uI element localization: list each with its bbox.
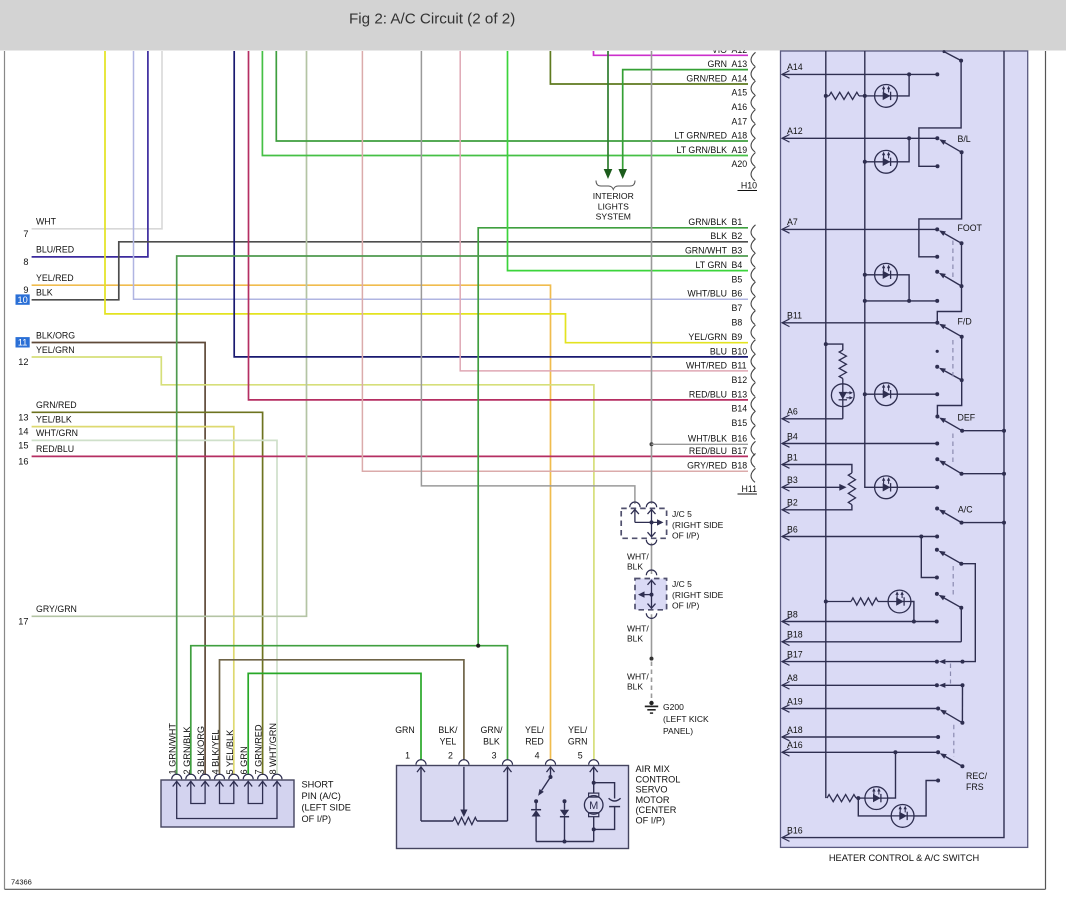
wire BLK pin10 to B2 (32, 242, 748, 300)
svg-text:HEATER CONTROL & A/C SWITCH: HEATER CONTROL & A/C SWITCH (829, 853, 979, 863)
lamp L-A6 (831, 384, 854, 407)
connector pin B10 label BLU (710, 346, 756, 368)
svg-text:B16: B16 (732, 434, 748, 444)
svg-text:YEL/GRN: YEL/GRN (36, 345, 75, 355)
svg-text:(LEFT KICK: (LEFT KICK (663, 714, 709, 724)
svg-text:BLK/ORG: BLK/ORG (36, 330, 75, 340)
wire WHT/BLK feeder to junction connector JC5 (421, 51, 635, 504)
svg-text:B4: B4 (732, 260, 743, 270)
pin 15 label WHT/GRN (18, 428, 78, 450)
wire GRN/WHT B3 to short pin1 (177, 256, 748, 775)
svg-text:OF I/P): OF I/P) (302, 814, 332, 824)
svg-text:10: 10 (17, 295, 27, 305)
switch chain segment 3 (937, 243, 961, 322)
wire RED/BLU to B13 (249, 51, 749, 400)
svg-text:LT GRN/BLK: LT GRN/BLK (676, 145, 727, 155)
svg-text:8 WHT/GRN: 8 WHT/GRN (268, 723, 278, 775)
wire GRN/RED pin13 to short pin7 (32, 412, 263, 775)
wire WHT/GRN pin15 to short pin8 (32, 440, 277, 775)
svg-text:(RIGHT SIDE: (RIGHT SIDE (672, 520, 724, 530)
svg-text:GRY/RED: GRY/RED (687, 461, 727, 471)
switch A/C blade 2 (944, 513, 961, 523)
svg-text:B3: B3 (732, 245, 743, 255)
wire GRN/RED to A14 (550, 51, 748, 84)
switch chain segment 1 (919, 61, 961, 167)
switch box pin B17 (782, 649, 803, 665)
resistor R5 (827, 795, 856, 802)
svg-text:A18: A18 (732, 130, 748, 140)
switch F/D blade 1 (945, 327, 962, 337)
connector pin B11 label WHT/RED (686, 360, 756, 382)
lamp L6 (888, 590, 911, 613)
short pin connector socket 5 (229, 774, 239, 779)
wire BLK/ORG pin11 to short pin3 (32, 343, 206, 776)
connector pin B18 label GRY/RED (687, 461, 755, 483)
svg-text:A14: A14 (787, 62, 803, 72)
pin line A19 (782, 708, 938, 710)
switch REC blade 1 (944, 554, 961, 564)
connector pin A20 (732, 159, 756, 181)
lamp L1 (875, 85, 898, 108)
pin line A8 (782, 684, 937, 686)
svg-text:J/C 5: J/C 5 (672, 509, 692, 519)
drawing frame border (4, 51, 6, 889)
svg-text:PIN (A/C): PIN (A/C) (302, 791, 341, 801)
interior lights system brace (596, 181, 635, 190)
switch box pin B1 (782, 452, 798, 468)
svg-text:A13: A13 (732, 59, 748, 69)
wire BLU/RED pin8 (32, 51, 148, 257)
svg-text:WHT: WHT (36, 217, 57, 227)
svg-text:SYSTEM: SYSTEM (596, 212, 631, 222)
short pin internal jumpers (173, 781, 281, 818)
lamp L5 (875, 476, 898, 499)
switch box pin A16 (782, 740, 803, 756)
svg-text:MOTOR: MOTOR (636, 795, 670, 805)
wire L8 to REC contact (914, 781, 938, 816)
short pin connector socket 2 (186, 774, 196, 779)
air mix capacitor (594, 783, 621, 830)
wire RED/BLU pin16 to B17 (32, 455, 748, 457)
air mix diode D1 (531, 801, 541, 841)
svg-text:H10: H10 (741, 181, 757, 191)
switch FOOT gang dashes (952, 241, 954, 278)
svg-text:DEF: DEF (958, 413, 976, 423)
pin 10 label BLK (16, 288, 53, 305)
junction connector J/C 5 upper (dashed) (621, 502, 666, 545)
connector pin B16 label WHT/BLK (688, 434, 756, 456)
svg-text:BLK: BLK (36, 288, 53, 298)
wire B6 jog to lower contact (921, 537, 937, 578)
wire GRN/BLK branch to air mix pin3 (478, 646, 507, 761)
connector pin A14 label GRN/RED (686, 73, 755, 95)
svg-text:5 YEL/BLK: 5 YEL/BLK (225, 729, 235, 775)
pin line A6 with resistor and lamp (782, 407, 843, 419)
air mix bottom rail (536, 841, 594, 843)
svg-text:WHT/GRN: WHT/GRN (36, 428, 78, 438)
common rail to B16 (782, 51, 1004, 838)
wire DEF pivot to rail (962, 430, 1004, 432)
switch box pin B8 (782, 609, 798, 625)
svg-text:B17: B17 (787, 649, 803, 659)
svg-text:RED/BLU: RED/BLU (36, 444, 74, 454)
switch chain segment 5 (961, 564, 975, 662)
pin 9 label YEL/RED (23, 273, 73, 295)
svg-text:B1: B1 (732, 217, 743, 227)
svg-text:BLU/RED: BLU/RED (36, 245, 74, 255)
svg-text:A12: A12 (787, 126, 803, 136)
wire WHT/BLU to B6 (134, 51, 749, 299)
svg-text:A17: A17 (732, 116, 748, 126)
svg-text:SHORT: SHORT (302, 780, 334, 790)
wire A/C blade1 pivot to rail (962, 473, 1005, 475)
svg-text:(CENTER: (CENTER (636, 805, 677, 815)
resistor R4 (824, 600, 828, 604)
svg-text:B2: B2 (787, 498, 798, 508)
switch chain segment 7 (961, 685, 963, 723)
switch box pin B6 (782, 524, 798, 540)
bus line A (825, 51, 827, 798)
switch A19/A16 gang dashes (953, 725, 955, 757)
svg-text:LT GRN: LT GRN (696, 260, 727, 270)
title bar (0, 0, 1066, 51)
wire LT GRN/BLK to A19 (262, 51, 748, 156)
wire LT GRN/RED to A18 (276, 51, 748, 141)
connector arc A12 (751, 52, 755, 66)
svg-text:GRN/: GRN/ (481, 725, 504, 735)
wire to lamp L8 (858, 798, 891, 816)
switch box pin A14 (782, 62, 803, 78)
switch REC blade 2 (944, 598, 961, 608)
svg-text:LT GRN/RED: LT GRN/RED (675, 130, 727, 140)
connector pin A19 label LT GRN/BLK (676, 145, 755, 167)
switch box pin A19 (782, 696, 803, 712)
svg-text:7 GRN/RED: 7 GRN/RED (254, 724, 264, 774)
svg-text:REC/: REC/ (966, 771, 988, 781)
switch REC gang dashes (952, 566, 954, 596)
svg-text:B18: B18 (787, 630, 803, 640)
svg-text:RED/BLU: RED/BLU (689, 389, 727, 399)
wire BLK/YEL short pin4 to air mix pin2 (220, 660, 464, 775)
svg-text:16: 16 (18, 456, 28, 466)
svg-text:GRN/BLK: GRN/BLK (688, 217, 727, 227)
svg-text:B2: B2 (732, 231, 743, 241)
svg-text:YEL/RED: YEL/RED (36, 273, 74, 283)
svg-text:BLK: BLK (627, 682, 643, 692)
lamp L3 (865, 274, 875, 276)
potentiometer B1/B3/B2 (782, 465, 856, 510)
svg-text:YEL/GRN: YEL/GRN (688, 332, 727, 342)
short pin connector socket 4 (215, 774, 225, 779)
switch A19 blade (945, 713, 962, 723)
svg-text:11: 11 (18, 338, 28, 348)
svg-text:4: 4 (535, 751, 540, 761)
switch FOOT blade 1 (945, 234, 962, 244)
switch DEF gang dashes (952, 434, 954, 465)
svg-text:GRN: GRN (395, 725, 415, 735)
svg-text:B6: B6 (732, 289, 743, 299)
svg-text:GRN: GRN (568, 737, 588, 747)
svg-text:OF I/P): OF I/P) (672, 531, 700, 541)
heater control and A/C switch box (781, 51, 1028, 847)
wire WHT pin7 (32, 51, 162, 229)
lamp L8 (891, 805, 914, 828)
pin line A16 (782, 751, 938, 753)
switch box pin B2 (782, 498, 798, 514)
svg-text:13: 13 (18, 412, 28, 422)
svg-text:BLK: BLK (627, 634, 643, 644)
connector pin B7 (732, 303, 756, 325)
short pin connector socket 6 (243, 774, 253, 779)
svg-text:BLK: BLK (627, 562, 643, 572)
pin 17 label GRY/GRN (18, 604, 77, 626)
svg-text:YEL: YEL (440, 737, 457, 747)
wire GRN/BLK B1 trunk (478, 228, 748, 646)
junction WHT/BLK splice (650, 657, 654, 661)
svg-text:RED: RED (525, 737, 544, 747)
connector pin B2 label BLK (710, 231, 755, 253)
svg-text:BLK: BLK (483, 737, 500, 747)
junction WHT/BLK at B16 (650, 442, 654, 446)
connector pin B1 label GRN/BLK (688, 217, 755, 239)
svg-text:B14: B14 (732, 404, 748, 414)
svg-text:GRY/GRN: GRY/GRN (36, 604, 77, 614)
svg-text:B1: B1 (787, 452, 798, 462)
svg-text:FRS: FRS (966, 782, 984, 792)
switch chain segment 2 (919, 152, 962, 256)
svg-text:WHT/BLK: WHT/BLK (688, 434, 727, 444)
pin line B4 (782, 443, 937, 445)
switch box pin A6 (782, 407, 798, 423)
svg-text:A19: A19 (787, 696, 803, 706)
connector pin B6 label WHT/BLU (687, 289, 755, 311)
svg-text:F/D: F/D (958, 317, 972, 327)
wire GRN/BLK branch to short pin2 (191, 646, 478, 775)
pin 14 label YEL/BLK (18, 414, 72, 436)
svg-text:M: M (589, 800, 598, 812)
switch chain top blade (944, 52, 961, 61)
short pin connector socket 8 (272, 774, 282, 779)
svg-text:A7: A7 (787, 217, 798, 227)
svg-text:BLK: BLK (710, 231, 727, 241)
svg-text:GRN: GRN (707, 59, 727, 69)
pin line A18 (782, 736, 938, 738)
wire L5 to contact (897, 486, 937, 488)
svg-text:7: 7 (23, 229, 28, 239)
pin line B11 (782, 322, 937, 324)
switch box pin B3 (782, 475, 798, 491)
wire GRY/RED to B18 (362, 51, 748, 471)
svg-text:15: 15 (18, 440, 28, 450)
switch box pin B18 (782, 630, 803, 646)
svg-text:Fig 2: A/C Circuit (2 of 2): Fig 2: A/C Circuit (2 of 2) (349, 11, 515, 28)
air mix control servo motor box (397, 766, 629, 849)
short pin connector box (161, 780, 294, 827)
wire BLU to B10 (234, 51, 748, 357)
svg-text:LIGHTS: LIGHTS (598, 201, 629, 211)
svg-text:5: 5 (578, 751, 583, 761)
svg-text:B9: B9 (732, 332, 743, 342)
svg-text:WHT/: WHT/ (627, 552, 649, 562)
connector pin B8 (732, 317, 756, 339)
lamp L4 (865, 393, 875, 395)
svg-text:SERVO: SERVO (636, 785, 668, 795)
svg-text:A18: A18 (787, 725, 803, 735)
wire L6 to B8 line (911, 602, 914, 622)
air mix connector socket 2 (459, 760, 469, 765)
svg-text:2: 2 (448, 751, 453, 761)
switch F/D blade 2 (945, 371, 962, 380)
air mix connector socket 3 (503, 760, 513, 765)
svg-text:B8: B8 (787, 609, 798, 619)
svg-text:B17: B17 (732, 446, 748, 456)
switch box pin A8 (782, 673, 798, 689)
svg-text:B8: B8 (732, 317, 743, 327)
connector pin A15 (732, 88, 756, 110)
pin line A7 (782, 228, 937, 230)
svg-text:9: 9 (23, 285, 28, 295)
switch box pin B16 (782, 825, 803, 841)
pin 16 label RED/BLU (18, 444, 74, 466)
pin line B17 (782, 661, 937, 663)
svg-text:B4: B4 (787, 431, 798, 441)
svg-text:B6: B6 (787, 524, 798, 534)
switch box pin A18 (782, 725, 803, 741)
pin 12 label YEL/GRN (18, 345, 74, 367)
air mix motor M (pin 5) (584, 767, 603, 842)
svg-text:YEL/BLK: YEL/BLK (36, 414, 72, 424)
svg-text:B11: B11 (787, 311, 802, 321)
svg-text:WHT/: WHT/ (627, 672, 649, 682)
switch box pin B4 (782, 431, 798, 447)
air mix diode D2 (560, 799, 569, 841)
svg-text:B11: B11 (732, 360, 747, 370)
ground G200 (645, 701, 658, 713)
svg-text:J/C 5: J/C 5 (672, 579, 692, 589)
svg-text:A15: A15 (732, 88, 748, 98)
wire YEL/BLK pin14 to short pin5 (32, 427, 234, 775)
svg-text:74366: 74366 (11, 878, 32, 887)
connector pin A16 (732, 102, 756, 124)
svg-text:B13: B13 (732, 389, 748, 399)
svg-text:FOOT: FOOT (958, 223, 983, 233)
svg-text:OF I/P): OF I/P) (636, 816, 666, 826)
svg-text:CONTROL: CONTROL (636, 774, 681, 784)
svg-text:B18: B18 (732, 461, 748, 471)
connector pin B13 label RED/BLU (689, 389, 756, 411)
pin line A14 (782, 73, 937, 75)
svg-text:(RIGHT SIDE: (RIGHT SIDE (672, 590, 724, 600)
svg-text:GRN/RED: GRN/RED (36, 400, 77, 410)
wire VIO to A12 (594, 51, 749, 55)
switch chain segment 4 (937, 337, 961, 417)
wire L4 to contact (897, 393, 937, 395)
resistor R1 (826, 95, 829, 97)
svg-text:H11: H11 (742, 484, 758, 494)
svg-text:(LEFT SIDE: (LEFT SIDE (302, 803, 351, 813)
svg-text:A8: A8 (787, 673, 798, 683)
wire L2 to A12 line (897, 138, 909, 162)
wire YEL to B9 (105, 51, 748, 343)
svg-text:17: 17 (18, 616, 28, 626)
lamp L7 (865, 787, 888, 810)
svg-text:3: 3 (492, 751, 497, 761)
switch box pin A7 (782, 217, 798, 233)
pin line B18 to switch chain (782, 641, 961, 643)
switch FOOT blade 2 (945, 276, 962, 286)
short pin connector socket 1 (172, 774, 182, 779)
svg-text:A14: A14 (732, 73, 748, 83)
svg-text:GRN/RED: GRN/RED (686, 73, 727, 83)
svg-text:1: 1 (405, 751, 410, 761)
svg-text:14: 14 (18, 427, 28, 437)
connector pin B9 label YEL/GRN (688, 332, 755, 354)
svg-text:A6: A6 (787, 407, 798, 417)
svg-text:12: 12 (18, 357, 28, 367)
svg-text:3 BLK/ORG: 3 BLK/ORG (196, 726, 206, 775)
pin 11 label BLK/ORG (16, 330, 76, 347)
wire YEL/RED pin9 to air mix pin4 (32, 285, 551, 760)
pin 13 label GRN/RED (18, 400, 76, 422)
svg-text:G200: G200 (663, 702, 684, 712)
svg-text:1 GRN/WHT: 1 GRN/WHT (168, 723, 178, 775)
svg-text:A16: A16 (787, 740, 803, 750)
wire L3 to contact line (897, 275, 909, 301)
switch F/D gang dashes (952, 340, 954, 378)
svg-text:WHT/BLU: WHT/BLU (687, 289, 727, 299)
svg-text:A20: A20 (732, 159, 748, 169)
pin 7 label WHT (23, 217, 56, 239)
bus line B (865, 51, 875, 487)
connector pin B3 label GRN/WHT (685, 245, 756, 267)
svg-text:BLU: BLU (710, 346, 727, 356)
svg-text:B3: B3 (787, 475, 798, 485)
svg-text:GRN/WHT: GRN/WHT (685, 245, 728, 255)
wire WHT/BLK trunk vertical (651, 51, 653, 504)
wire L1 to A14 line (897, 74, 909, 96)
wire GRY/GRN pin17 (32, 51, 307, 616)
wire WHT/BLK to B16 (652, 443, 749, 445)
svg-text:A19: A19 (732, 145, 748, 155)
svg-text:6 GRN: 6 GRN (239, 746, 249, 774)
wire YEL/GRN pin12 to air mix pin5 (32, 357, 594, 760)
air mix potentiometer (pins 1-3) (417, 767, 512, 825)
wire bus B to FOOT contact (865, 300, 937, 302)
svg-text:B15: B15 (732, 418, 748, 428)
connector pin B12 (732, 375, 756, 397)
pin line B8 (782, 621, 937, 623)
lamp L2 (865, 161, 875, 163)
switch A/C blade 1 (945, 464, 962, 474)
wire GRN A13 to interior lights (623, 70, 748, 170)
svg-text:YEL/: YEL/ (568, 725, 588, 735)
wire L7 to A16 line (888, 752, 896, 798)
pin 8 label BLU/RED (23, 245, 74, 267)
svg-text:B7: B7 (732, 303, 743, 313)
switch chain segment 6 (960, 608, 962, 642)
svg-text:YEL/: YEL/ (525, 725, 545, 735)
svg-text:A16: A16 (732, 102, 748, 112)
switch box pin B11 (782, 311, 802, 327)
connector pin B15 (732, 418, 756, 440)
junction GRN/BLK (476, 644, 480, 648)
switch B/L blade (945, 143, 962, 153)
switch B17 horizontal blade (945, 661, 962, 663)
svg-text:WHT/RED: WHT/RED (686, 360, 727, 370)
switch DEF blade (945, 421, 962, 431)
svg-text:PANEL): PANEL) (663, 726, 693, 736)
svg-text:B10: B10 (732, 346, 748, 356)
